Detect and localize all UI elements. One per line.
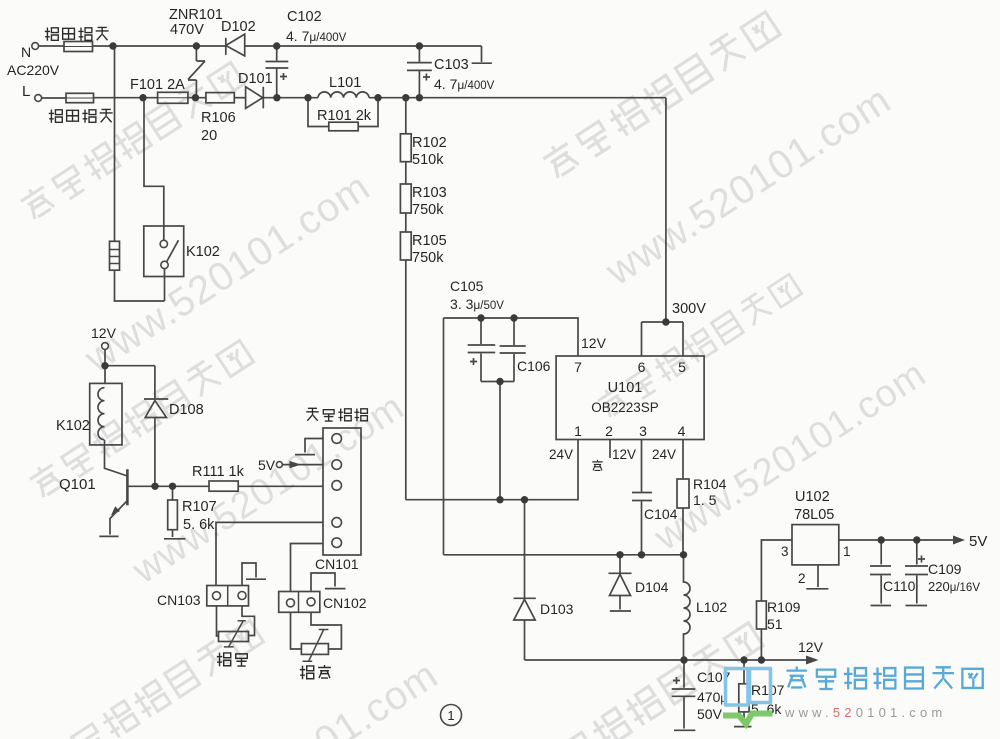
diode D104 triangle bbox=[610, 574, 631, 595]
wire CN102 right pin to sensor right bbox=[311, 612, 341, 649]
wire pin3 stub to C104 bbox=[641, 440, 643, 492]
resistor R104 bbox=[677, 479, 689, 508]
sensor 锅盖 element bbox=[219, 632, 249, 642]
page number circle bbox=[441, 705, 462, 726]
svg-text:3: 3 bbox=[781, 544, 789, 559]
svg-text:C102: C102 bbox=[287, 9, 322, 25]
svg-text:D104: D104 bbox=[635, 579, 669, 595]
capacitor C105 bbox=[468, 318, 496, 382]
svg-text:CN102: CN102 bbox=[323, 595, 367, 611]
wire R104 to bus bbox=[682, 508, 684, 555]
svg-text:510k: 510k bbox=[412, 152, 444, 168]
svg-text:L: L bbox=[22, 83, 30, 100]
svg-text:L102: L102 bbox=[696, 599, 727, 615]
wire R105 down to 24V rail bbox=[405, 260, 407, 500]
resistor R106 bbox=[206, 93, 234, 103]
inductor L101 bbox=[318, 92, 369, 98]
svg-text:6: 6 bbox=[638, 359, 646, 375]
U102 pin2 ground bbox=[806, 565, 828, 589]
wire 5V rail bbox=[839, 539, 953, 541]
svg-text:D101: D101 bbox=[238, 71, 273, 87]
svg-text:1: 1 bbox=[574, 423, 582, 439]
wire base line to R111 bbox=[127, 485, 209, 487]
wire D103 branch down bbox=[524, 500, 526, 599]
wire CN103 left pin to sensor bbox=[217, 606, 220, 636]
svg-text:U101: U101 bbox=[608, 380, 643, 396]
wire R111 to CN101 pin3 bbox=[238, 485, 323, 487]
capacitor C109 with bar bbox=[905, 540, 928, 606]
svg-text:F101 2A: F101 2A bbox=[130, 77, 185, 93]
capacitor C110 with bar bbox=[870, 540, 891, 606]
12V arrow bbox=[806, 656, 819, 665]
svg-text:R102: R102 bbox=[412, 135, 447, 151]
diode D104 with chassis stub bbox=[609, 555, 632, 611]
svg-text:N: N bbox=[21, 44, 31, 60]
inductor L102 bbox=[684, 555, 691, 660]
svg-text:C109: C109 bbox=[928, 561, 962, 577]
relay coil K102 box bbox=[90, 383, 122, 445]
svg-text:220μ/16V: 220μ/16V bbox=[928, 579, 980, 594]
svg-text:ZNR101: ZNR101 bbox=[169, 7, 223, 23]
resistor R105 bbox=[400, 232, 411, 260]
svg-text:R109: R109 bbox=[767, 599, 801, 615]
5V arrow bbox=[953, 536, 965, 545]
svg-text:470V: 470V bbox=[170, 22, 204, 38]
wire N line fuse to D102 bbox=[93, 45, 226, 47]
wire L line fuse to F101 bbox=[94, 97, 158, 99]
svg-text:D102: D102 bbox=[221, 19, 256, 35]
svg-text:C104: C104 bbox=[644, 506, 678, 522]
wire K102 contact bottom lead bbox=[164, 269, 166, 301]
svg-text:51: 51 bbox=[767, 616, 783, 632]
wire 12V output bus bbox=[525, 659, 807, 661]
5V input arrowhead bbox=[290, 461, 302, 468]
svg-text:R104: R104 bbox=[693, 476, 727, 492]
wire C105/C106 bottom to 24V rail bbox=[499, 382, 501, 500]
resistor R107 upper bbox=[168, 500, 178, 530]
connector CN101 bbox=[323, 428, 361, 555]
resistor R103 bbox=[400, 184, 411, 213]
wire L line D101 to L101 bbox=[264, 97, 319, 99]
resistor R109 bbox=[757, 601, 767, 629]
svg-text:1. 5: 1. 5 bbox=[693, 492, 717, 508]
fuse 磁钢保险 L bbox=[66, 93, 94, 102]
sensor 锅底 element bbox=[301, 644, 328, 655]
resistor R111 bbox=[209, 481, 238, 491]
connector CN102 bbox=[279, 592, 320, 613]
svg-text:CN103: CN103 bbox=[157, 592, 201, 608]
terminal L bbox=[35, 95, 42, 102]
svg-text:2: 2 bbox=[798, 571, 806, 586]
label 锅盖 bbox=[217, 653, 231, 667]
capacitor C106 bbox=[500, 318, 526, 382]
svg-text:R107: R107 bbox=[182, 499, 217, 515]
wire pin5-pin6 300V bus bbox=[642, 321, 684, 323]
capacitor C107 bbox=[672, 660, 696, 730]
wire CN101 pin5 to CN102 bbox=[291, 544, 324, 592]
wire striped part to bottom corner bbox=[115, 270, 165, 301]
capacitor C103 bbox=[407, 46, 432, 98]
wire pin5 stub bbox=[682, 322, 684, 356]
wire 300V vertical drop bbox=[665, 98, 667, 322]
wire 5V arrow to CN101 pin2 bbox=[282, 464, 323, 466]
svg-text:R105: R105 bbox=[412, 233, 447, 249]
svg-text:C106: C106 bbox=[517, 358, 551, 374]
Q101 emitter bbox=[99, 501, 127, 537]
diode D102 bbox=[226, 34, 245, 56]
svg-text:12V: 12V bbox=[612, 447, 636, 462]
svg-text:78L05: 78L05 bbox=[794, 507, 834, 523]
resistor R109 leads bbox=[761, 540, 792, 660]
svg-text:750k: 750k bbox=[412, 250, 444, 266]
varistor ZNR101 bbox=[188, 46, 205, 98]
svg-text:U102: U102 bbox=[795, 489, 830, 505]
wire N node down left branch bbox=[114, 46, 116, 241]
resistor R107 lower leads and ground bbox=[734, 660, 752, 727]
diode D108 bbox=[144, 366, 168, 487]
wire pin2 stub bbox=[609, 440, 611, 458]
svg-text:12V: 12V bbox=[91, 325, 117, 341]
svg-text:3: 3 bbox=[639, 423, 647, 439]
svg-text:7: 7 bbox=[574, 359, 582, 375]
Q101 emitter arrow bbox=[111, 506, 120, 515]
CN102 right pin chassis stub bbox=[311, 573, 346, 592]
junction dots bbox=[109, 42, 116, 49]
label 锅底 bbox=[300, 666, 314, 680]
wire N line from terminal to fuse bbox=[39, 45, 65, 47]
logo text 家电维修资料网 bbox=[787, 666, 983, 689]
svg-text:50V: 50V bbox=[697, 706, 723, 722]
svg-text:D103: D103 bbox=[540, 601, 574, 617]
svg-text:1: 1 bbox=[843, 544, 851, 559]
svg-text:20: 20 bbox=[201, 128, 217, 144]
wire pin4 stub to R104 bbox=[682, 440, 684, 479]
svg-text:R111 1k: R111 1k bbox=[192, 464, 245, 480]
label 去电脑板 bbox=[306, 408, 319, 421]
wire 24V rail (pin1) bbox=[406, 440, 578, 500]
wire R102 chain top bbox=[405, 98, 407, 134]
CN101 pin1 chassis stub bbox=[295, 439, 323, 455]
logo book icon bbox=[726, 669, 771, 706]
svg-text:300V: 300V bbox=[672, 301, 706, 317]
diode D101 bbox=[246, 87, 264, 109]
svg-text:C110: C110 bbox=[883, 578, 916, 594]
logo green swoosh bbox=[723, 714, 773, 725]
relay contact K102 box bbox=[144, 226, 184, 277]
label 磁钢保险 bottom bbox=[49, 110, 62, 123]
resistor R101 bbox=[329, 122, 358, 131]
wire D103 to bottom bus bbox=[524, 620, 526, 660]
svg-text:12V: 12V bbox=[581, 335, 607, 351]
resistor R107 upper leads and ground bbox=[164, 486, 185, 539]
svg-text:CN101: CN101 bbox=[315, 556, 359, 572]
svg-text:750k: 750k bbox=[412, 202, 444, 218]
wire coil to D108 link bbox=[105, 365, 155, 367]
wire coil bottom to collector bbox=[105, 440, 128, 476]
svg-text:24V: 24V bbox=[652, 447, 676, 462]
wire L line after L101 to 300V corner bbox=[369, 97, 666, 99]
svg-text:1: 1 bbox=[447, 708, 454, 723]
terminal N bbox=[32, 43, 39, 50]
CN101 pin circles bbox=[332, 434, 342, 444]
wire snubber bus bbox=[444, 554, 684, 556]
wire L line F101 to R106 bbox=[188, 97, 206, 99]
K102 contact circles bbox=[160, 240, 167, 247]
svg-text:R101 2k: R101 2k bbox=[317, 108, 372, 124]
svg-text:2: 2 bbox=[605, 423, 613, 439]
wire K102 contact top lead bbox=[144, 98, 164, 241]
svg-text:R107: R107 bbox=[751, 682, 785, 698]
svg-text:L101: L101 bbox=[329, 75, 361, 91]
wire CN103 right pin to sensor bbox=[242, 606, 255, 636]
svg-text:AC220V: AC220V bbox=[7, 62, 60, 78]
svg-text:5V: 5V bbox=[969, 533, 987, 550]
IC U101 OB2223SP bbox=[556, 356, 704, 440]
12V supply lead bbox=[104, 349, 106, 383]
wire L line R106 to D101 bbox=[234, 97, 245, 99]
capacitor C102 bbox=[266, 46, 289, 98]
svg-text:OB2223SP: OB2223SP bbox=[591, 400, 659, 415]
wire C105-C106 bottom join bbox=[481, 381, 514, 383]
CN103 pin circles bbox=[213, 592, 221, 600]
IC U102 78L05 bbox=[792, 525, 839, 565]
wire L line terminal to fuse bbox=[42, 97, 67, 99]
svg-text:5V: 5V bbox=[258, 457, 276, 473]
fuse 磁钢保险 N bbox=[64, 42, 93, 52]
svg-text:12V: 12V bbox=[798, 639, 824, 655]
K102 lever bbox=[167, 240, 179, 262]
svg-text:K102: K102 bbox=[56, 418, 90, 434]
svg-text:R106: R106 bbox=[201, 110, 236, 126]
connector CN103 bbox=[207, 586, 249, 606]
CN103 right pin chassis stub bbox=[242, 563, 266, 586]
svg-text:R103: R103 bbox=[412, 185, 447, 201]
svg-text:5. 6k: 5. 6k bbox=[183, 517, 215, 533]
terminal 5V in bbox=[276, 462, 282, 468]
label 空 bbox=[592, 460, 602, 471]
svg-text:C105: C105 bbox=[450, 278, 484, 294]
svg-text:C103: C103 bbox=[434, 57, 469, 73]
wire pin6 stub bbox=[641, 322, 643, 356]
wire N line D102 to top-right corner bbox=[245, 45, 482, 47]
relay coil winding bbox=[98, 388, 105, 440]
wire R101 parallel branch right bbox=[358, 98, 378, 127]
svg-text:www.520101.com: www.520101.com bbox=[784, 705, 946, 720]
striped breaker element bbox=[110, 241, 120, 270]
capacitor C104 bbox=[632, 493, 652, 555]
diode D108 triangle bbox=[145, 401, 166, 418]
svg-text:4: 4 bbox=[678, 423, 686, 439]
wire R103-R105 link bbox=[405, 213, 407, 232]
chassis stub top right bbox=[472, 46, 492, 63]
svg-text:5: 5 bbox=[678, 359, 686, 375]
label 磁钢保险 top bbox=[45, 28, 58, 41]
wire CN101 pin4 to CN103 bbox=[216, 522, 323, 585]
wire C105 top rail to pin7 bbox=[444, 318, 579, 356]
terminal 12V bbox=[102, 343, 109, 350]
CN102 pin circles bbox=[287, 599, 295, 607]
svg-text:Q101: Q101 bbox=[59, 476, 96, 493]
wire CN102 left pin down to sensor bbox=[291, 612, 302, 649]
wire left loop down bbox=[443, 318, 445, 555]
svg-text:24V: 24V bbox=[549, 447, 573, 462]
wire R102-R103 link bbox=[405, 162, 407, 184]
svg-text:K102: K102 bbox=[186, 244, 220, 260]
Q101 base bar bbox=[126, 469, 129, 505]
resistor R102 bbox=[400, 134, 411, 162]
diode D103 bbox=[514, 598, 536, 620]
svg-text:D108: D108 bbox=[169, 402, 204, 418]
wire R101 parallel branch left bbox=[308, 98, 329, 127]
fuse F101 bbox=[158, 92, 188, 103]
resistor R107 lower bbox=[739, 684, 749, 712]
